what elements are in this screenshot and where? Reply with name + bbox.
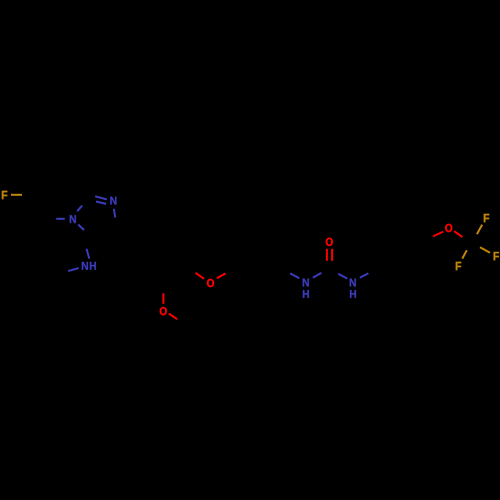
- atom O aryl ether: [207, 279, 214, 287]
- bond C2=N3 outer line half: [95, 196, 107, 199]
- atom H urea right (label H): [350, 290, 356, 298]
- atom F right of CF3: [494, 252, 499, 260]
- atom H of amine NH (label H): [90, 262, 96, 270]
- bond CF3-F right half: [480, 247, 490, 252]
- atom N1 imidazole (label): [70, 215, 76, 223]
- wire urea N left to chain CH2 half: [290, 273, 299, 278]
- atom N3 imidazole (label): [110, 197, 116, 205]
- bond C=O left line: [326, 249, 328, 261]
- bond C=O right line: [331, 249, 333, 261]
- atom N urea left (label N): [303, 279, 309, 287]
- wire urea N right to aryl half: [360, 273, 369, 278]
- wire ether O to ring half: [196, 273, 205, 279]
- wire amine NH to CH3 half: [68, 268, 79, 271]
- atom F top of CF3: [484, 214, 489, 222]
- wire amine NH to C5 half: [87, 249, 90, 259]
- wire N3 to C4 half: [114, 209, 115, 218]
- wire methoxy O to ring half: [162, 293, 164, 304]
- wire N1 to C5 half: [78, 225, 84, 231]
- atom F bottom-left of CF3: [456, 262, 461, 270]
- bond CF3-F bottom-left half: [462, 250, 467, 258]
- atom O trifluoromethoxy: [445, 224, 452, 232]
- atom F of fluoroethyl: [2, 191, 7, 199]
- wire urea N left to carbonyl C half: [313, 273, 322, 278]
- wire OCF3 O to aryl half: [433, 232, 443, 237]
- wire N1 to C2 half: [77, 206, 82, 212]
- bond CF3-F top half: [477, 225, 482, 235]
- atom N urea right (label N): [350, 279, 356, 287]
- atom O methoxy: [160, 307, 167, 315]
- wire urea N right to carbonyl C half: [338, 274, 347, 279]
- wire OCF3 O to CF3 half: [454, 231, 462, 237]
- atom N of amine NH (label N): [82, 262, 88, 270]
- atom H urea left (label H): [303, 290, 309, 298]
- bond C2=N3 inner line half: [96, 202, 106, 204]
- bond F-CH2 fluorine half: [11, 194, 22, 196]
- wire N1 to ring CH2 half: [56, 218, 65, 220]
- atom O urea carbonyl: [326, 238, 333, 246]
- wire methoxy O to CH3 half: [169, 314, 177, 320]
- wire ether O to chain CH2 half: [217, 273, 226, 278]
